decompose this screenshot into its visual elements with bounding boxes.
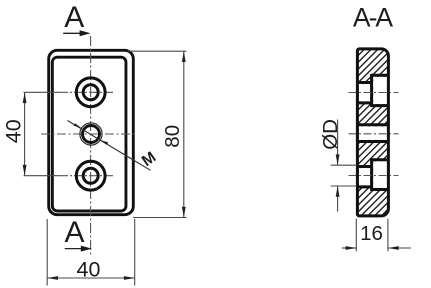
svg-text:A: A (64, 1, 84, 34)
svg-text:80: 80 (161, 125, 184, 148)
svg-text:40: 40 (2, 119, 26, 143)
svg-text:40: 40 (77, 257, 101, 281)
svg-text:A-A: A-A (353, 3, 394, 33)
svg-text:16: 16 (360, 222, 383, 245)
svg-text:A: A (64, 216, 84, 249)
svg-text:ØD: ØD (319, 119, 342, 150)
